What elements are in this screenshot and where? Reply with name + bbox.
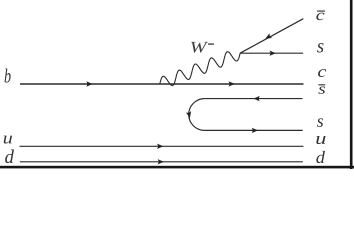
overbar of c-bar label bbox=[317, 11, 325, 12]
wire: s from W vertex bbox=[240, 52, 303, 54]
quark label s (right, pair-produced) bbox=[317, 118, 323, 127]
overbar of s-bar label bbox=[318, 84, 325, 85]
quark label u (right) bbox=[316, 136, 325, 144]
hairpin arc of s-sbar pair creation bbox=[189, 99, 205, 131]
quark label d (right) bbox=[316, 151, 325, 163]
arrow on c line bbox=[229, 81, 235, 86]
frame border bottom bbox=[0, 166, 354, 169]
wire: d spectator line bbox=[20, 161, 303, 163]
boson label W of W-minus bbox=[191, 42, 208, 53]
wire: s bottom line bbox=[205, 129, 303, 131]
arrow on s line bbox=[270, 51, 276, 56]
quark label d (left) bbox=[5, 150, 14, 164]
wire: b-to-c fermion line bbox=[20, 83, 304, 85]
arrow on d line bbox=[158, 159, 164, 164]
arrow on hairpin arc (points down) bbox=[186, 111, 193, 118]
arrow on s-bar line (points left) bbox=[254, 96, 260, 101]
quark label u (left) bbox=[4, 136, 12, 144]
quark label c (right) bbox=[318, 69, 326, 77]
arrow on s bottom line bbox=[252, 128, 258, 133]
wire: s-bar line bbox=[205, 98, 303, 100]
antiquark label c of c-bar (right top) bbox=[316, 13, 324, 20]
arrow on u line bbox=[157, 144, 163, 149]
superscript minus of W-minus bbox=[208, 44, 214, 45]
wire: c-bar diagonal from W vertex bbox=[240, 19, 303, 54]
antiquark label s of s-bar (right) bbox=[318, 87, 325, 94]
arrow on b line bbox=[86, 81, 92, 86]
wire: u spectator line bbox=[20, 145, 304, 147]
quark label s (right, from W vertex) bbox=[317, 43, 323, 52]
frame border right bbox=[350, 0, 353, 169]
arrow on c-bar diagonal (antiparticle, points toward vertex) bbox=[264, 33, 272, 41]
quark label b bbox=[5, 69, 11, 83]
boson W- wavy line bbox=[160, 52, 240, 86]
